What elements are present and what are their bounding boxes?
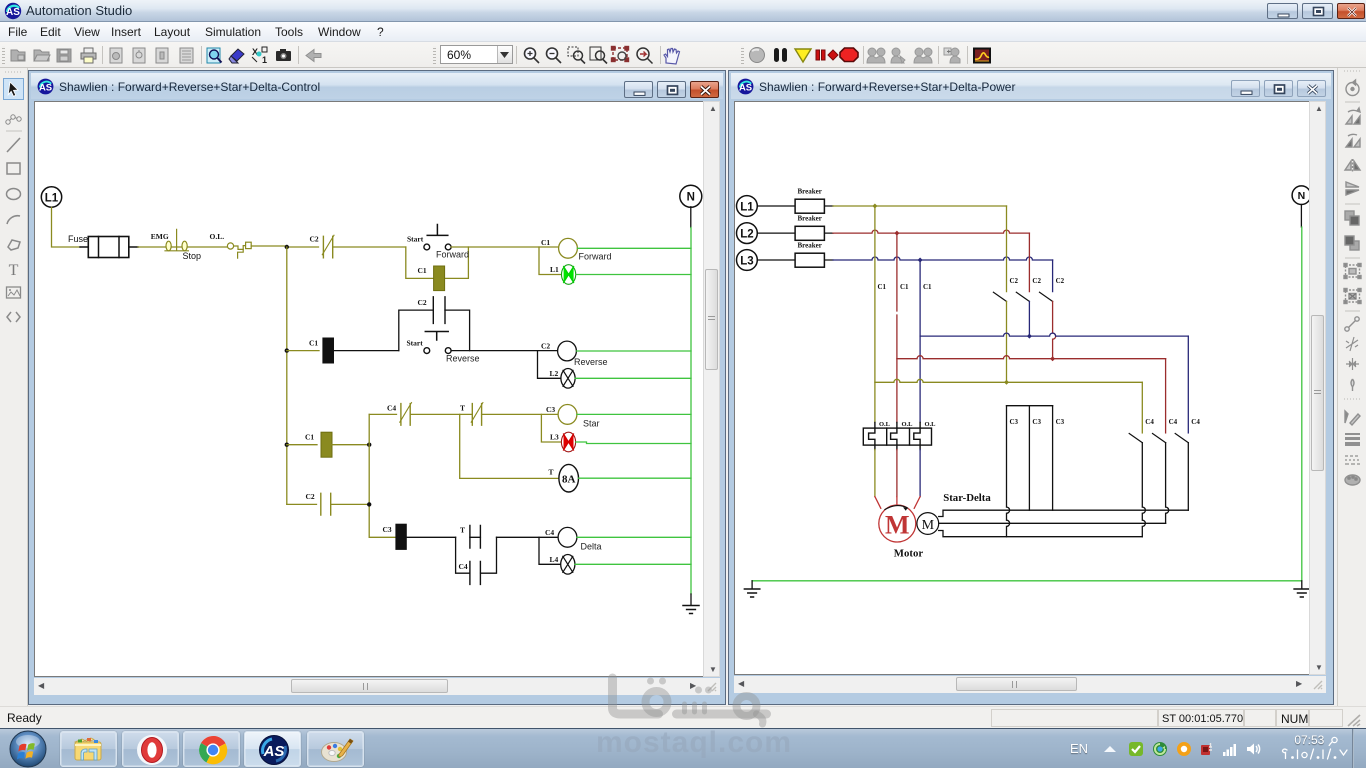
branch to lamp L2 [538,351,562,379]
wire lamp L1 to N bus [576,274,691,276]
svg-text:AS: AS [263,743,285,760]
status bar [0,706,1366,728]
rotate right 90 [1346,134,1360,147]
bus red mid [897,356,1166,359]
wire coil C3 to N bus [577,413,691,415]
eraser blue [229,49,244,63]
link line [1345,317,1359,331]
contact T (NC) star rung [460,403,483,426]
neutral bus (energized) [690,228,692,595]
svg-text:Motor: Motor [894,548,924,560]
contact C4 phase3 (open) [1175,336,1200,510]
wire timer T to N bus [579,477,692,479]
wire coil C4 to N bus [577,536,691,538]
contact C2 phase2 (open) [1016,233,1041,336]
contact C4 (NO latch) delta rung [459,561,481,584]
node L3 [737,250,758,271]
flip v [1346,182,1359,195]
preview [207,48,222,63]
contact C1 phase3 (closed) [920,260,932,423]
contact C2 phase1 (open) [993,206,1018,382]
svg-text:T: T [460,404,465,413]
junction rung2 [285,348,289,352]
junction olive/C2 [1004,380,1009,385]
wire lamp L3 to N bus (jog) [576,442,691,444]
scale X1 [252,47,267,65]
rotate left 90 [1346,108,1360,124]
wire coil C2 to N bus [576,350,691,352]
svg-text:C3: C3 [383,525,392,534]
node L1 [41,187,61,207]
junction navy/C2 [1027,334,1032,339]
overload relay O.L [863,421,936,450]
svg-text:L2: L2 [550,369,559,378]
svg-text:1: 1 [262,55,267,65]
ellipse [7,189,21,200]
bus navy mid [920,333,1188,336]
vscroll [703,101,720,677]
zoom - [547,48,562,63]
wire L3 top rail [833,257,1053,260]
open project [34,50,49,61]
contact C3 phase1 (closed) [1007,406,1019,537]
junction riser rung3 [367,443,371,447]
motor M2 star-delta [917,492,991,534]
zoom selection [612,47,629,62]
opera button [122,731,179,767]
node L1 [737,196,758,217]
coil C3 Star [546,405,600,429]
winding line C [939,531,1143,537]
zoom area [568,47,585,64]
wire latch to coil C4 [470,536,558,538]
svg-text:Stop: Stop [183,251,202,261]
60% combo [440,45,513,64]
svg-text:AS: AS [739,82,752,93]
watermark [594,668,779,728]
svg-text:C1: C1 [305,432,314,441]
junction rung3 [285,443,289,447]
wire L1 top rail [833,205,1007,207]
contact C1 closed (energized) rung1 [418,266,445,291]
junction riser rung4 [367,502,371,506]
contact C4 (NC) star rung [387,403,412,426]
line [7,138,20,152]
doc gray 4 [180,48,193,63]
svg-text:Breaker: Breaker [798,215,822,223]
contact C4 phase2 (open) [1153,359,1178,524]
latch branch box rung2 [399,310,470,351]
doc gray 2 [133,48,145,63]
save [57,49,71,62]
svg-text:C4: C4 [459,562,468,571]
main title bar [0,0,1366,22]
svg-text:C1: C1 [923,283,932,291]
svg-text:C2: C2 [1010,277,1019,285]
hands icon 3 [914,48,932,63]
svg-text:C4: C4 [545,528,554,537]
svg-text:C4: C4 [1191,418,1200,426]
svg-text:C3: C3 [546,405,555,414]
svg-text:Reverse: Reverse [446,354,480,364]
svg-text:L1: L1 [740,201,754,213]
svg-text:AS: AS [39,82,52,93]
align [1346,358,1359,370]
line style [1345,456,1360,464]
svg-text:Star-Delta: Star-Delta [943,492,991,504]
motor M1 [879,505,924,560]
junction L2/C1 [894,231,899,236]
contact C1 closed rung3 [305,432,332,457]
zoom + [525,48,540,63]
polygon [8,240,20,250]
stop octagon [840,48,858,62]
svg-text:Fuse: Fuse [68,234,88,244]
wire T branch down [460,414,559,478]
neutral wire (energized) [752,227,1302,581]
wire lamp L2 to N bus [575,377,691,379]
rectangle [7,163,20,174]
ground [683,594,699,614]
lamp L3 (lit red) [550,432,576,452]
wire bus to C1 contact rung2 [287,350,319,352]
svg-text:C3: C3 [1010,418,1019,426]
coil C1 Forward [541,238,612,261]
svg-text:M: M [885,511,910,540]
hands icon 2 [891,48,905,63]
wire rail to C2 contact [287,246,319,248]
svg-text:C2: C2 [1032,277,1041,285]
svg-text:L2: L2 [740,228,753,240]
toolbar [0,42,1366,68]
ground right [1294,581,1309,597]
svg-text:T: T [549,468,554,477]
wire C1 to riser [332,444,369,446]
svg-text:C3: C3 [1056,418,1065,426]
svg-text:Star: Star [583,419,600,429]
contact C3 closed delta rung [383,524,407,549]
arc [7,216,20,224]
svg-text:T: T [460,526,465,535]
svg-text:C1: C1 [541,238,550,247]
contact C3 phase3 (closed) [1053,406,1065,511]
contact C4 phase1 (open) [1129,382,1154,536]
svg-text:C1: C1 [900,283,909,291]
lamp L2 (off) [550,369,576,389]
doc gray 3 [156,48,168,63]
sim sphere [750,48,765,63]
cut links [1346,337,1358,351]
svg-text:Breaker: Breaker [798,242,822,250]
wire C3 to latch delta [406,536,455,538]
wire fuse to EMG [138,246,227,248]
hscroll [34,678,703,695]
menu bar [0,22,1366,42]
bring front [1345,211,1359,225]
branch to lamp L4 [539,537,561,564]
hands icon 1 [867,48,885,63]
hand pan [664,49,680,65]
svg-text:C2: C2 [1056,277,1065,285]
timer coil T 8A [549,464,579,492]
AS button (active) [244,731,301,767]
pause [774,48,787,62]
contact C2 (NO) rung4 [306,492,370,515]
junction L1/C1 [872,204,877,209]
bus olive mid [875,379,1142,382]
lamp L4 (off) [550,555,575,575]
chart icon [973,48,991,64]
svg-text:Forward: Forward [436,250,469,260]
wire riser to C4 contact [369,413,396,415]
wire to coil C1 [451,246,559,248]
branch to lamp L1 [539,247,562,275]
wire from L1 to fuse [52,207,81,247]
svg-text:N: N [1298,190,1306,202]
branch to lamp L3 [541,414,561,442]
zoom custom [637,48,653,64]
svg-text:O.L: O.L [879,421,891,428]
back arrow [306,50,321,62]
left bus vertical [286,247,288,504]
wire bus to C2 contact rung4 [287,503,317,505]
fuse F1 [68,234,138,258]
svg-text:C1: C1 [309,338,318,347]
svg-text:Breaker: Breaker [798,188,822,196]
coil C4 Delta [545,527,602,551]
latch branch box delta [456,537,497,573]
wire N stub [690,207,692,228]
ground left [744,581,759,597]
select tool (active) [4,79,24,100]
wire riser to C3 contact delta rung [369,536,396,538]
wire L2 top rail [833,230,1029,233]
right strip [1337,68,1366,706]
riser vertical [368,414,370,536]
svg-text:L4: L4 [550,555,559,564]
rotate any [1346,80,1359,96]
contact C2 (NO latch) rung2 [418,297,446,324]
contact C2 (NC) rung1 [310,235,406,258]
svg-text:C2: C2 [418,298,427,307]
doc gray 1 [110,48,122,63]
contact C1 phase1 (closed) [875,206,887,423]
chrome button [183,731,240,767]
contact C3 phase2 (closed) [1029,406,1041,511]
svg-text:Reverse: Reverse [574,357,608,367]
svg-text:Start: Start [407,234,424,243]
wire coil C1 to N bus (energized) [577,247,691,249]
pushbutton EMG (NC) [151,229,201,260]
send back [1345,236,1359,250]
svg-text:T: T [9,262,19,279]
svg-text:C4: C4 [387,404,396,413]
svg-text:C2: C2 [306,492,315,501]
camera [276,49,291,61]
zoom page [590,47,607,64]
start orb [7,730,49,768]
left strip [0,68,28,706]
contact C2 phase3 (open) [1040,260,1065,359]
contact C3 star bar [1007,405,1053,407]
breaker 2 [757,215,833,241]
node N [680,185,702,207]
link tool [6,115,21,124]
svg-text:O.L: O.L [925,421,937,428]
new project [11,50,25,61]
group [1344,264,1361,279]
line weight [1345,433,1360,446]
node L2 [737,223,758,244]
svg-text:C4: C4 [1169,418,1178,426]
breaker 3 [757,242,833,268]
plot manager [944,48,960,63]
contact T (NO) delta rung [460,526,480,549]
junction red/C2 [1050,356,1055,361]
svg-text:8A: 8A [562,474,576,486]
junction rail/left bus [285,245,289,249]
svg-text:O.L: O.L [902,421,914,428]
pushbutton Start Forward [407,225,469,260]
taskbar [0,728,1366,768]
flip h [1345,159,1360,172]
probe [1351,379,1354,391]
coil C2 Reverse [541,341,608,367]
svg-text:L3: L3 [740,255,753,267]
pen style [1345,411,1360,425]
pushbutton Start Reverse [407,332,480,364]
motor leads [875,497,920,509]
svg-text:C2: C2 [541,342,550,351]
junction L3/C1 [918,258,923,263]
svg-text:C1: C1 [878,283,887,291]
lamp L1 (lit green) [550,265,576,285]
svg-text:N: N [687,192,695,204]
svg-text:L3: L3 [550,433,559,442]
svg-text:C3: C3 [1032,418,1041,426]
svg-text:O.L.: O.L. [210,232,225,241]
breaker 1 [757,188,833,214]
contact C1 closed rung2 [309,338,334,363]
svg-text:C4: C4 [1145,418,1154,426]
svg-text:AS: AS [6,7,20,18]
explorer button [60,731,117,767]
svg-text:C1: C1 [418,266,427,275]
svg-text:EMG: EMG [151,232,169,241]
svg-text:Forward: Forward [579,251,612,261]
tray [1070,741,1088,756]
slow (triangle) [795,49,811,62]
overload contact O.L. [210,232,287,258]
wire bus to C1 contact rung3 [287,444,317,446]
print [81,53,96,59]
svg-text:C2: C2 [310,235,319,244]
phase wires OL to motor [874,450,876,497]
wire lamp L4 to N bus [575,563,691,565]
winding line A [939,510,1189,516]
node N [1292,186,1311,205]
step [816,50,838,60]
wire C1 to latch rung2 [334,350,399,352]
svg-text:L1: L1 [45,192,59,204]
wire to coil C2 [451,350,558,352]
paint button [307,731,364,767]
svg-text:Start: Start [407,338,424,347]
latch branch box rung1 [406,247,469,278]
ungroup [1344,289,1361,304]
field tool [7,312,20,322]
image tool [7,287,21,298]
color [1345,475,1360,485]
winding line B [939,522,1166,524]
svg-text:M: M [922,518,935,533]
wire C4 to T contact [410,413,472,415]
wire T to coil C3 [482,413,559,415]
wire N stub [1300,205,1302,228]
contact C1 phase2 (closed) [897,233,909,422]
svg-text:L1: L1 [550,265,559,274]
svg-text:Delta: Delta [581,542,602,552]
